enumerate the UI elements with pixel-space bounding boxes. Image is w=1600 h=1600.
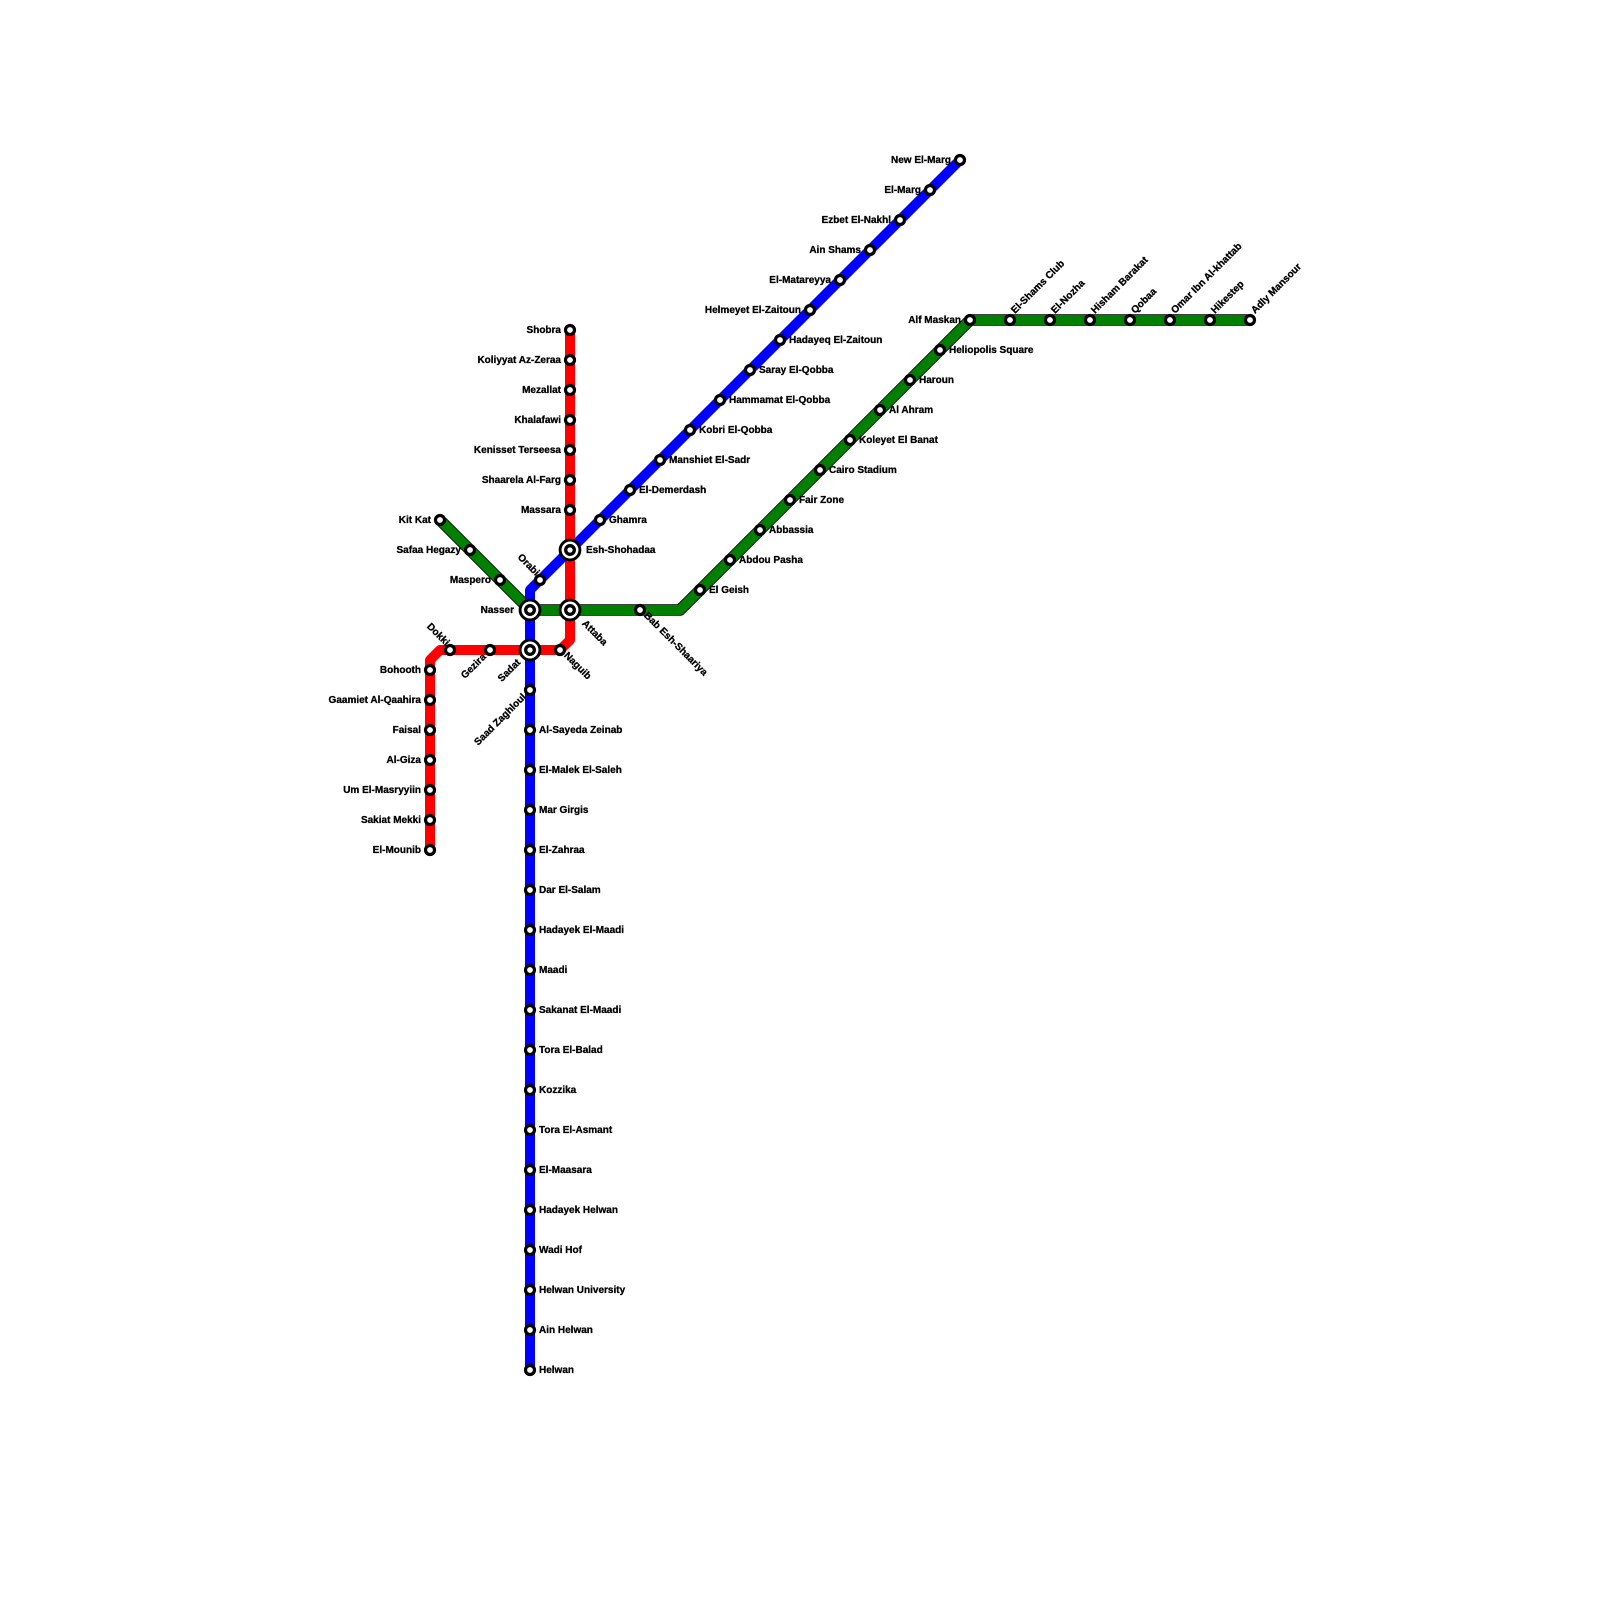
station Dar El-Salam (L1) [526, 886, 535, 895]
svg-text:El-Zahraa: El-Zahraa [539, 845, 585, 856]
station Massara (L2) [566, 506, 575, 515]
svg-text:Ain Shams: Ain Shams [809, 245, 861, 256]
svg-text:Helwan University: Helwan University [539, 1285, 626, 1296]
station Haroun (L3) [906, 376, 915, 385]
station Sadat (L1/L2) [520, 640, 540, 660]
station Ezbet El-Nakhl (L1) [896, 216, 905, 225]
station El Geish (L3) [696, 586, 705, 595]
station Hikestep (L3) [1206, 316, 1215, 325]
svg-text:El Geish: El Geish [709, 585, 749, 596]
station Sakiat Mekki (L2) [426, 816, 435, 825]
svg-text:El-Mounib: El-Mounib [373, 845, 421, 856]
svg-text:Wadi Hof: Wadi Hof [539, 1245, 583, 1256]
svg-text:Hammamat El-Qobba: Hammamat El-Qobba [729, 395, 831, 406]
svg-text:Bohooth: Bohooth [380, 665, 421, 676]
station Wadi Hof (L1) [526, 1246, 535, 1255]
station Al Ahram (L3) [876, 406, 885, 415]
station Helwan (L1) [526, 1366, 535, 1375]
svg-text:Um El-Masryyiin: Um El-Masryyiin [343, 785, 421, 796]
station Tora El-Balad (L1) [526, 1046, 535, 1055]
station Al-Sayeda Zeinab (L1) [526, 726, 535, 735]
svg-text:Abbassia: Abbassia [769, 525, 814, 536]
station Khalafawi (L2) [566, 416, 575, 425]
Line 3 (green) casing [442, 320, 1248, 610]
svg-text:Khalafawi: Khalafawi [514, 415, 561, 426]
station Helmeyet El-Zaitoun (L1) [806, 306, 815, 315]
svg-text:Hadayeq El-Zaitoun: Hadayeq El-Zaitoun [789, 335, 882, 346]
station Mar Girgis (L1) [526, 806, 535, 815]
svg-text:El-Maasara: El-Maasara [539, 1165, 592, 1176]
svg-text:Kit Kat: Kit Kat [399, 515, 432, 526]
svg-text:Abdou Pasha: Abdou Pasha [739, 555, 803, 566]
station Gaamiet Al-Qaahira (L2) [426, 696, 435, 705]
station Orabi (L1) [536, 576, 545, 585]
station Hammamat El-Qobba (L1) [716, 396, 725, 405]
station Sakanat El-Maadi (L1) [526, 1006, 535, 1015]
svg-text:Massara: Massara [521, 505, 561, 516]
station Maspero (L3) [496, 576, 505, 585]
svg-text:El-Malek El-Saleh: El-Malek El-Saleh [539, 765, 622, 776]
svg-text:Shaarela Al-Farg: Shaarela Al-Farg [482, 475, 561, 486]
station Tora El-Asmant (L1) [526, 1126, 535, 1135]
station Adly Mansour (L3) [1246, 316, 1255, 325]
svg-text:Shobra: Shobra [527, 325, 562, 336]
svg-text:Tora El-Asmant: Tora El-Asmant [539, 1125, 613, 1136]
station Abbassia (L3) [756, 526, 765, 535]
station El-Mounib (L2) [426, 846, 435, 855]
svg-text:Kenisset Terseesa: Kenisset Terseesa [474, 445, 562, 456]
station Gezira (L2) [486, 646, 495, 655]
station Faisal (L2) [426, 726, 435, 735]
station Abdou Pasha (L3) [726, 556, 735, 565]
svg-text:Heliopolis Square: Heliopolis Square [949, 345, 1034, 356]
station Saad Zaghloul (L1) [526, 686, 535, 695]
station El-Maasara (L1) [526, 1166, 535, 1175]
station Bohooth (L2) [426, 666, 435, 675]
station El-Demerdash (L1) [626, 486, 635, 495]
station El-Nozha (L3) [1046, 316, 1055, 325]
svg-text:Hadayek Helwan: Hadayek Helwan [539, 1205, 618, 1216]
station Shaarela Al-Farg (L2) [566, 476, 575, 485]
station El-Matareyya (L1) [836, 276, 845, 285]
station Kenisset Terseesa (L2) [566, 446, 575, 455]
Line 3 (green) Kit Kat - Adly Mansour [440, 320, 1250, 610]
svg-text:Alf Maskan: Alf Maskan [908, 315, 961, 326]
station Mezallat (L2) [566, 386, 575, 395]
station Ain Helwan (L1) [526, 1326, 535, 1335]
svg-text:Ain Helwan: Ain Helwan [539, 1325, 593, 1336]
svg-text:Cairo Stadium: Cairo Stadium [829, 465, 897, 476]
svg-text:Kozzika: Kozzika [539, 1085, 577, 1096]
svg-text:Esh-Shohadaa: Esh-Shohadaa [586, 545, 656, 556]
station New El-Marg (L1) [956, 156, 965, 165]
svg-text:Mar Girgis: Mar Girgis [539, 805, 589, 816]
svg-text:Safaa Hegazy: Safaa Hegazy [397, 545, 462, 556]
station El-Zahraa (L1) [526, 846, 535, 855]
station Ain Shams (L1) [866, 246, 875, 255]
station Saray El-Qobba (L1) [746, 366, 755, 375]
station Ghamra (L1) [596, 516, 605, 525]
svg-text:Sakanat El-Maadi: Sakanat El-Maadi [539, 1005, 621, 1016]
station Helwan University (L1) [526, 1286, 535, 1295]
station Kozzika (L1) [526, 1086, 535, 1095]
station Maadi (L1) [526, 966, 535, 975]
svg-text:Helwan: Helwan [539, 1365, 574, 1376]
station Cairo Stadium (L3) [816, 466, 825, 475]
svg-text:Maadi: Maadi [539, 965, 568, 976]
svg-text:Tora El-Balad: Tora El-Balad [539, 1045, 603, 1056]
svg-text:Al-Giza: Al-Giza [387, 755, 422, 766]
svg-text:Manshiet El-Sadr: Manshiet El-Sadr [669, 455, 750, 466]
svg-text:El-Marg: El-Marg [884, 185, 921, 196]
svg-text:Mezallat: Mezallat [522, 385, 562, 396]
Line 2 (red) Shobra - El-Mounib [430, 330, 570, 850]
station Fair Zone (L3) [786, 496, 795, 505]
station Manshiet El-Sadr (L1) [656, 456, 665, 465]
svg-text:Ghamra: Ghamra [609, 515, 647, 526]
station Hadayek Helwan (L1) [526, 1206, 535, 1215]
svg-text:Al Ahram: Al Ahram [889, 405, 933, 416]
station El-Marg (L1) [926, 186, 935, 195]
svg-text:Nasser: Nasser [481, 605, 514, 616]
station Kobri El-Qobba (L1) [686, 426, 695, 435]
svg-text:El-Matareyya: El-Matareyya [769, 275, 831, 286]
station Safaa Hegazy (L3) [466, 546, 475, 555]
station Esh-Shohadaa (L1/L2) [560, 540, 580, 560]
station Qobaa (L3) [1126, 316, 1135, 325]
station Koleyet El Banat (L3) [846, 436, 855, 445]
svg-text:Ezbet El-Nakhl: Ezbet El-Nakhl [822, 215, 892, 226]
station Kit Kat (L3) [436, 516, 445, 525]
svg-text:New El-Marg: New El-Marg [891, 155, 951, 166]
svg-text:Al-Sayeda Zeinab: Al-Sayeda Zeinab [539, 725, 622, 736]
station Heliopolis Square (L3) [936, 346, 945, 355]
station Um El-Masryyiin (L2) [426, 786, 435, 795]
Line 1 (blue) New El-Marg - Helwan [530, 160, 960, 1370]
station Omar Ibn Al-khattab (L3) [1166, 316, 1175, 325]
station Hadayek El-Maadi (L1) [526, 926, 535, 935]
svg-text:Hadayek El-Maadi: Hadayek El-Maadi [539, 925, 624, 936]
station Shobra (L2) [566, 326, 575, 335]
svg-text:Maspero: Maspero [450, 575, 491, 586]
station El-Shams Club (L3) [1006, 316, 1015, 325]
station Attaba (L2/L3) [560, 600, 580, 620]
svg-text:Koleyet El Banat: Koleyet El Banat [859, 435, 939, 446]
station Hadayeq El-Zaitoun (L1) [776, 336, 785, 345]
station Nasser (L1/L3) [520, 600, 540, 620]
svg-text:Sakiat Mekki: Sakiat Mekki [361, 815, 421, 826]
svg-text:Fair Zone: Fair Zone [799, 495, 844, 506]
station Al-Giza (L2) [426, 756, 435, 765]
svg-text:Dar El-Salam: Dar El-Salam [539, 885, 601, 896]
svg-text:Helmeyet El-Zaitoun: Helmeyet El-Zaitoun [705, 305, 801, 316]
svg-text:Saray El-Qobba: Saray El-Qobba [759, 365, 834, 376]
svg-text:El-Demerdash: El-Demerdash [639, 485, 706, 496]
svg-text:Faisal: Faisal [393, 725, 422, 736]
station El-Malek El-Saleh (L1) [526, 766, 535, 775]
station Koliyyat Az-Zeraa (L2) [566, 356, 575, 365]
svg-text:Haroun: Haroun [919, 375, 954, 386]
station Alf Maskan (L3) [966, 316, 975, 325]
station Dokki (L2) [446, 646, 455, 655]
svg-text:Kobri El-Qobba: Kobri El-Qobba [699, 425, 773, 436]
svg-text:Gaamiet Al-Qaahira: Gaamiet Al-Qaahira [329, 695, 422, 706]
station Naguib (L2) [556, 646, 565, 655]
station Hisham Barakat (L3) [1086, 316, 1095, 325]
station Bab Esh-Shaariya (L3) [636, 606, 645, 615]
svg-text:Koliyyat Az-Zeraa: Koliyyat Az-Zeraa [477, 355, 561, 366]
